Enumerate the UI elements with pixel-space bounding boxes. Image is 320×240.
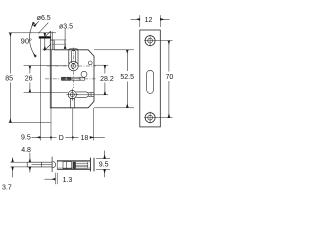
- svg-text:28.2: 28.2: [100, 76, 114, 83]
- svg-text:D: D: [59, 135, 64, 142]
- svg-text:9.5: 9.5: [99, 161, 109, 168]
- svg-text:90°: 90°: [21, 36, 32, 45]
- svg-text:4.8: 4.8: [21, 147, 31, 154]
- svg-text:9.5: 9.5: [21, 135, 31, 142]
- svg-text:3.7: 3.7: [2, 184, 12, 191]
- svg-text:ø6.5: ø6.5: [37, 15, 51, 22]
- svg-text:85: 85: [5, 76, 13, 83]
- svg-text:26: 26: [25, 76, 33, 83]
- svg-text:18: 18: [81, 135, 89, 142]
- svg-text:1.3: 1.3: [63, 177, 73, 184]
- svg-text:ø3.5: ø3.5: [59, 24, 73, 31]
- svg-text:12: 12: [145, 17, 153, 24]
- svg-text:52.5: 52.5: [120, 74, 134, 81]
- svg-text:70: 70: [166, 74, 174, 81]
